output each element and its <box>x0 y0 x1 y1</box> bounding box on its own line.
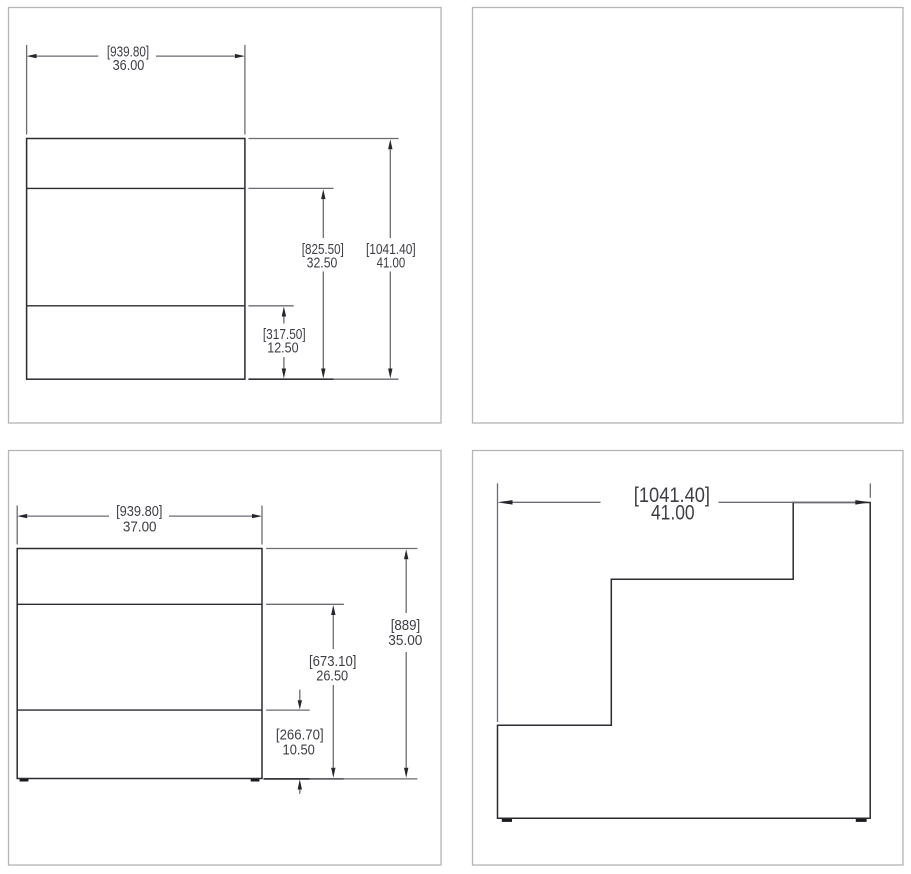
panel frame top-left <box>9 8 442 424</box>
svg-text:26.50: 26.50 <box>316 668 348 684</box>
dimension height [1041.40] 41.00 (top-left panel) <box>248 139 415 380</box>
shelf line 2 (bottom-left panel) <box>17 709 262 711</box>
svg-text:35.00: 35.00 <box>388 633 422 649</box>
bottom extension line shared by stacked dimensions (bottom-left panel) <box>264 778 418 780</box>
panel frame top-right <box>473 8 904 424</box>
bottom extension line shared by stacked dimensions (top-left panel) <box>248 378 333 380</box>
panel frame bottom-left <box>9 451 442 866</box>
cabinet outline front view (bottom-left panel) <box>17 549 262 779</box>
shelf line 1 (top-left panel) <box>27 187 245 189</box>
dimension width [939.80] 36.00 (top-left panel) <box>27 44 245 134</box>
dimension height [317.50] 12.50 (top-left panel) <box>248 306 305 379</box>
svg-text:41.00: 41.00 <box>377 256 406 272</box>
dimension width [939.80] 37.00 (bottom-left panel) <box>17 504 262 545</box>
shelf line 2 (top-left panel) <box>27 305 245 307</box>
svg-text:41.00: 41.00 <box>651 502 695 525</box>
cabinet outline front view (top-left panel) <box>27 139 245 380</box>
svg-text:10.50: 10.50 <box>283 742 315 758</box>
dimension height [825.50] 32.50 (top-left panel) <box>248 188 343 378</box>
right foot glide (bottom-right panel) <box>856 819 867 822</box>
svg-text:[939.80]: [939.80] <box>116 504 162 520</box>
right foot glide (bottom-left panel) <box>251 779 260 782</box>
svg-text:37.00: 37.00 <box>123 520 157 536</box>
dimension height [266.70] 10.50 (bottom-left panel, outside arrows) <box>266 690 323 794</box>
svg-text:[889]: [889] <box>391 618 421 634</box>
shelf line 1 (bottom-left panel) <box>17 603 262 605</box>
svg-text:32.50: 32.50 <box>307 256 338 272</box>
left foot glide (bottom-left panel) <box>20 779 29 782</box>
dimension height [673.10] 26.50 (bottom-left panel) <box>266 604 356 778</box>
svg-text:36.00: 36.00 <box>113 58 145 74</box>
dimension height [889] 35.00 (bottom-left panel) <box>266 549 422 778</box>
left foot glide (bottom-right panel) <box>502 819 512 822</box>
svg-text:[266.70]: [266.70] <box>276 728 324 744</box>
panel frame bottom-right <box>473 451 904 866</box>
stepped cabinet profile side view (bottom-right panel) <box>498 503 871 819</box>
svg-text:12.50: 12.50 <box>267 341 298 357</box>
dimension width [1041.40] 41.00 (bottom-right panel) <box>497 483 870 722</box>
